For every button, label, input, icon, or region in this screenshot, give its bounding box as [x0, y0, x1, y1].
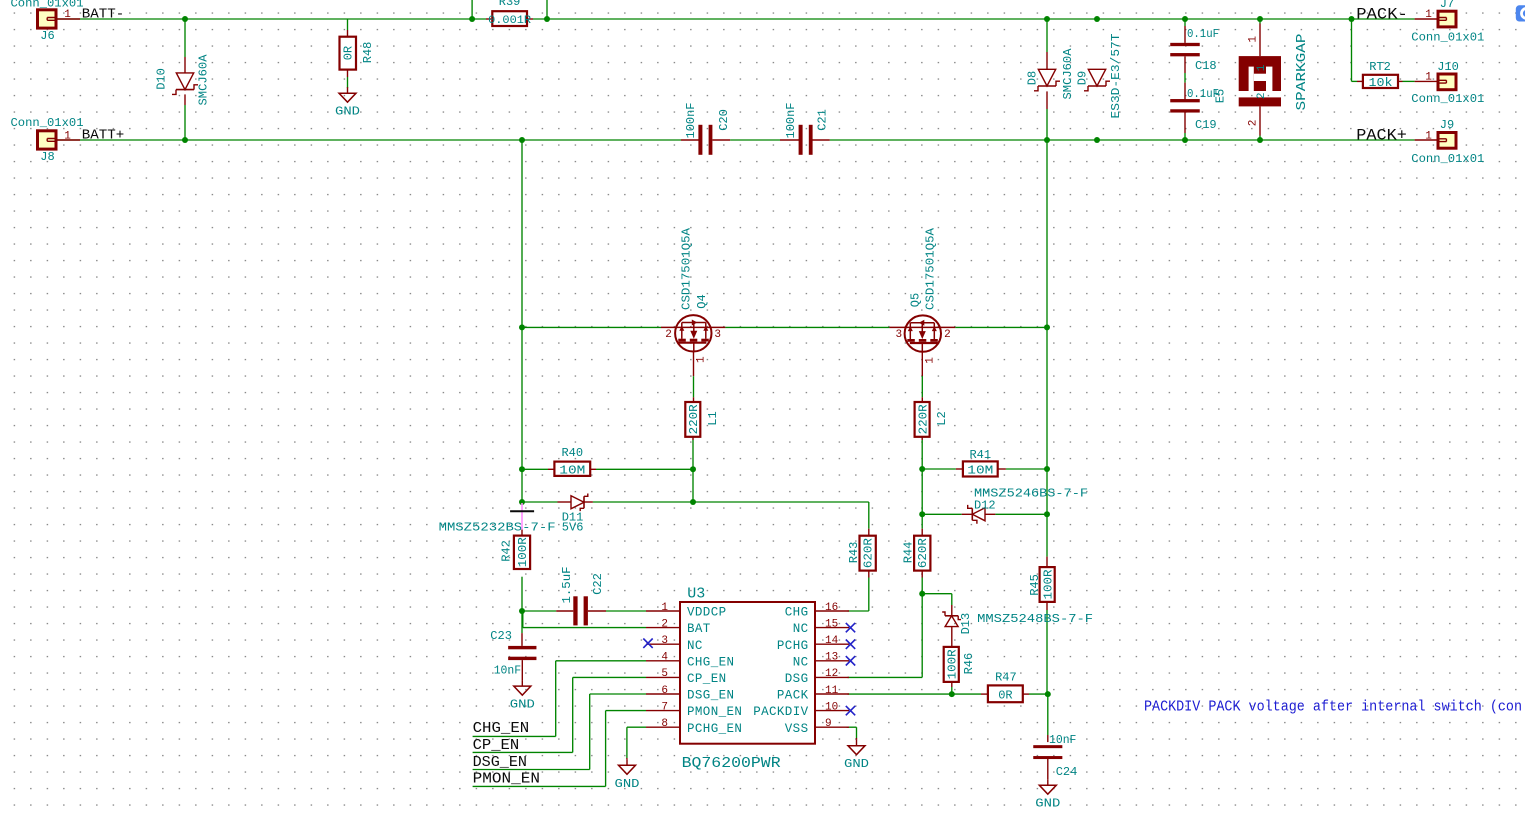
resistor R39 0.001R	[488, 0, 531, 27]
wire sparkgap branch	[1259, 19, 1261, 140]
junction (1047,469)	[1044, 466, 1050, 472]
svg-text:GND: GND	[335, 105, 360, 119]
wire D12 row	[922, 513, 1047, 515]
svg-text:NC: NC	[793, 622, 809, 636]
capacitor C19 0.1uF	[1170, 87, 1219, 132]
diode D9 ES3D-E3/57T	[1076, 34, 1124, 119]
svg-text:D9: D9	[1076, 71, 1090, 85]
svg-text:BAT: BAT	[687, 622, 711, 636]
svg-text:L2: L2	[935, 411, 949, 425]
svg-text:R40: R40	[561, 446, 583, 460]
resistor R41 10M	[963, 448, 998, 478]
wire R41 row	[922, 468, 1047, 470]
browser overlay button	[1516, 5, 1525, 21]
svg-text:CSD17501Q5A: CSD17501Q5A	[679, 227, 693, 310]
junction (522,327.4)	[519, 324, 525, 330]
svg-text:SPARKGAP: SPARKGAP	[1294, 33, 1310, 110]
wire pin16 CHG	[848, 610, 869, 612]
junction (1047,140)	[1044, 137, 1050, 143]
transistor Q5 CSD17501Q5A	[895, 227, 950, 364]
junction (1185,140)	[1182, 137, 1188, 143]
svg-text:R45: R45	[1028, 574, 1042, 596]
resistor R44 620R	[902, 536, 931, 571]
svg-text:1: 1	[1425, 131, 1432, 143]
wire Q5 gate chain	[921, 351, 923, 677]
diode D10 SMCJ60A	[155, 54, 211, 106]
svg-text:NC: NC	[793, 655, 809, 669]
resistor RT2 10k	[1363, 60, 1398, 90]
svg-text:PACK+: PACK+	[1356, 127, 1407, 145]
svg-text:CSD17501Q5A: CSD17501Q5A	[924, 227, 938, 310]
capacitor C23 10nF	[490, 629, 536, 677]
svg-text:0.1uF: 0.1uF	[1187, 27, 1219, 41]
wire BATT- / PACK- top rail	[56, 0, 1415, 19]
svg-text:J9: J9	[1440, 118, 1454, 132]
svg-text:2: 2	[661, 618, 668, 630]
wire C23 branch	[521, 611, 523, 680]
svg-text:Conn_01x01: Conn_01x01	[11, 116, 84, 130]
svg-text:Conn_01x01: Conn_01x01	[11, 0, 84, 11]
svg-text:10nF: 10nF	[494, 663, 521, 677]
wire pin7 PMON_EN stair	[473, 711, 646, 787]
resistor R42 100R	[499, 530, 530, 569]
svg-text:7: 7	[661, 701, 668, 713]
svg-text:2: 2	[1256, 92, 1268, 99]
svg-text:3: 3	[895, 329, 902, 341]
junction (951.8,694.1)	[949, 691, 955, 697]
svg-text:1: 1	[661, 602, 668, 614]
svg-text:PACK-: PACK-	[1356, 5, 1408, 23]
svg-text:1: 1	[925, 357, 937, 364]
junction (1047.8,694.1)	[1045, 691, 1051, 697]
svg-text:DSG: DSG	[785, 672, 809, 686]
svg-text:0R: 0R	[998, 688, 1012, 702]
svg-text:J7: J7	[1440, 0, 1454, 11]
ground below pin8 PCHG_EN	[615, 759, 640, 791]
diode D12 MMSZ5246BS-7-F	[968, 487, 1088, 524]
svg-text:BATT+: BATT+	[82, 127, 125, 143]
svg-text:CHG_EN: CHG_EN	[473, 720, 530, 737]
svg-text:1.5uF: 1.5uF	[560, 567, 574, 604]
junction (1047,327.4)	[1044, 324, 1050, 330]
svg-text:R39: R39	[499, 0, 521, 9]
wire left rail x=522	[521, 140, 523, 611]
svg-text:D10: D10	[155, 68, 169, 90]
svg-text:6: 6	[661, 685, 668, 697]
svg-text:Conn_01x01: Conn_01x01	[1411, 92, 1484, 106]
wire BATT+ / PACK+ bottom rail	[56, 139, 1415, 141]
svg-text:VDDCP: VDDCP	[687, 606, 727, 620]
junction (693,502)	[690, 499, 696, 505]
wire MOSFET rail y=327.4	[522, 326, 1047, 328]
svg-text:Conn_01x01: Conn_01x01	[1411, 152, 1484, 166]
svg-text:MMSZ5232BS-7-F: MMSZ5232BS-7-F	[439, 521, 556, 535]
wire PACK- to RT2 and J10	[1352, 19, 1415, 81]
ground below pin9 VSS	[844, 740, 869, 772]
svg-text:PACKDIV: PACKDIV	[753, 705, 808, 719]
wire pin5 CP_EN stair	[473, 677, 646, 752]
svg-text:13: 13	[825, 652, 838, 664]
wire pin6 DSG_EN stair	[473, 694, 646, 770]
svg-text:5V6: 5V6	[562, 521, 584, 535]
svg-text:VSS: VSS	[785, 722, 809, 736]
ground below C23	[510, 680, 535, 712]
svg-text:C19: C19	[1195, 118, 1217, 132]
no-connect X marks	[643, 623, 855, 715]
svg-text:PCHG_EN: PCHG_EN	[687, 722, 742, 736]
svg-text:R48: R48	[361, 42, 375, 64]
svg-text:1: 1	[695, 356, 707, 363]
junction (693,469.3)	[690, 466, 696, 472]
junction (522,469.3)	[519, 466, 525, 472]
svg-text:10M: 10M	[559, 464, 585, 478]
svg-text:4: 4	[661, 652, 668, 664]
svg-text:ES3D-E3/57T: ES3D-E3/57T	[1109, 34, 1123, 119]
svg-text:J10: J10	[1437, 60, 1459, 74]
svg-text:1: 1	[1425, 72, 1432, 84]
svg-text:100nF: 100nF	[784, 103, 798, 139]
svg-text:100R: 100R	[516, 537, 530, 567]
svg-text:J8: J8	[40, 150, 54, 164]
svg-text:GND: GND	[510, 698, 535, 712]
svg-text:3: 3	[661, 635, 668, 647]
svg-text:15: 15	[825, 618, 838, 630]
svg-text:SMCJ60A: SMCJ60A	[197, 54, 211, 106]
svg-text:MMSZ5246BS-7-F: MMSZ5246BS-7-F	[974, 487, 1088, 501]
svg-text:100nF: 100nF	[684, 103, 698, 139]
wire pin4 CHG_EN stair	[473, 661, 646, 737]
svg-text:12: 12	[825, 668, 838, 680]
svg-text:14: 14	[825, 635, 839, 647]
pink highlight marker	[510, 503, 534, 530]
svg-text:C18: C18	[1195, 59, 1217, 73]
wire Q4 gate chain	[692, 351, 695, 502]
svg-text:CP_EN: CP_EN	[687, 672, 727, 686]
svg-text:220R: 220R	[687, 404, 701, 434]
wire D10 branch	[184, 19, 186, 140]
junction (922.2,469)	[919, 466, 925, 472]
junction (922.2,593.7)	[919, 591, 925, 597]
junction (922.2,514.3)	[919, 511, 925, 517]
junction (1260,140)	[1257, 137, 1263, 143]
capacitor C18 0.1uF	[1170, 27, 1219, 73]
junction (522,611)	[519, 608, 525, 614]
svg-text:220R: 220R	[917, 404, 931, 434]
svg-text:R43: R43	[847, 542, 861, 564]
diode D11 MMSZ5232BS-7-F 5V6	[439, 494, 588, 535]
svg-text:C21: C21	[816, 109, 830, 131]
svg-text:0R: 0R	[342, 46, 356, 60]
svg-text:GND: GND	[615, 777, 640, 791]
svg-text:Q4: Q4	[695, 294, 709, 308]
wire pin1 VDDCP with C22	[522, 610, 646, 612]
svg-text:2: 2	[1248, 120, 1260, 127]
transistor Q4 CSD17501Q5A	[665, 227, 721, 363]
junction (1047,19)	[1044, 16, 1050, 22]
wire C18 C19 branch	[1184, 19, 1186, 140]
svg-text:11: 11	[825, 685, 839, 697]
resistor L1 220R	[685, 402, 720, 437]
svg-text:10M: 10M	[967, 464, 993, 478]
svg-text:DSG_EN: DSG_EN	[473, 754, 527, 771]
capacitor C20 100nF	[684, 103, 731, 155]
wire pin11 PACK / R47 row	[848, 693, 1048, 695]
junction (185,19)	[182, 16, 188, 22]
svg-text:8: 8	[661, 718, 668, 730]
junction (522,502)	[519, 499, 525, 505]
svg-text:E5: E5	[1214, 89, 1228, 103]
svg-text:2: 2	[944, 329, 951, 341]
svg-text:PACKDIV PACK voltage after in: PACKDIV PACK voltage after internal swit…	[1144, 699, 1522, 716]
svg-text:MMSZ5248BS-7-F: MMSZ5248BS-7-F	[977, 612, 1093, 626]
wire R40 row	[522, 468, 693, 470]
svg-text:PMON_EN: PMON_EN	[687, 705, 742, 719]
svg-text:CHG: CHG	[785, 606, 809, 620]
svg-text:1: 1	[1248, 36, 1260, 43]
svg-text:3: 3	[714, 329, 721, 341]
junction (1260,19)	[1257, 16, 1263, 22]
wire pin12 DSG	[848, 676, 923, 678]
svg-text:1: 1	[1256, 64, 1268, 71]
junction (522,140)	[519, 137, 525, 143]
op-amp U3 BQ76200PWR	[646, 586, 849, 772]
svg-text:1: 1	[1425, 9, 1432, 21]
svg-text:1: 1	[64, 130, 71, 142]
resistor L2 220R	[915, 402, 950, 437]
svg-text:L1: L1	[706, 411, 720, 425]
svg-text:PACK: PACK	[777, 689, 809, 703]
capacitor C21 100nF	[784, 103, 830, 155]
wire R48 to GND	[347, 19, 349, 88]
svg-text:R47: R47	[995, 670, 1017, 684]
svg-text:620R: 620R	[862, 538, 876, 568]
svg-text:J6: J6	[40, 29, 54, 43]
connector J10	[1411, 60, 1484, 106]
svg-text:BQ76200PWR: BQ76200PWR	[682, 755, 781, 772]
connector J8	[11, 116, 84, 164]
ground below C24	[1035, 758, 1060, 811]
wire D13 R46 chain	[922, 594, 952, 694]
capacitor C22 1.5uF	[560, 567, 605, 626]
svg-text:9: 9	[825, 718, 832, 730]
diode D13 MMSZ5248BS-7-F	[942, 612, 1093, 634]
svg-text:D13: D13	[959, 613, 973, 635]
svg-text:U3: U3	[687, 586, 705, 603]
svg-text:16: 16	[825, 602, 838, 614]
svg-text:1: 1	[64, 9, 71, 21]
junction (1185,19)	[1182, 16, 1188, 22]
resistor R40 10M	[554, 446, 590, 477]
svg-text:R46: R46	[962, 653, 976, 675]
wire right rail x=1047	[1046, 19, 1049, 742]
wire pin8 PCHG_EN to GND	[627, 727, 646, 759]
svg-text:5: 5	[661, 668, 668, 680]
junction (185,140)	[182, 137, 188, 143]
svg-text:10k: 10k	[1369, 76, 1393, 90]
resistor R43 620R	[847, 536, 876, 571]
svg-text:C23: C23	[490, 629, 512, 643]
wire pin2 BAT	[523, 611, 646, 628]
svg-text:R42: R42	[499, 540, 513, 562]
junction (1351.5,19)	[1349, 16, 1355, 22]
junction (1097,19)	[1094, 16, 1100, 22]
svg-text:0.001R: 0.001R	[488, 15, 531, 27]
svg-text:10nF: 10nF	[1049, 733, 1076, 747]
junction (1047,514.3)	[1044, 511, 1050, 517]
svg-text:SMCJ60A: SMCJ60A	[1061, 48, 1075, 100]
connector J7	[1411, 0, 1484, 45]
junction (472.1,19)	[469, 16, 475, 22]
resistor R46 100R	[944, 647, 976, 682]
wire pin9 VSS to GND	[847, 727, 857, 740]
svg-text:C20: C20	[717, 109, 731, 131]
svg-text:100R: 100R	[1042, 570, 1056, 600]
svg-text:RT2: RT2	[1369, 60, 1391, 74]
resistor R47 0R	[988, 670, 1023, 702]
ground below R48	[335, 87, 360, 119]
sparkgap E5	[1214, 33, 1311, 126]
svg-text:CP_EN: CP_EN	[473, 737, 520, 754]
svg-text:PMON_EN: PMON_EN	[473, 771, 540, 788]
svg-text:BATT-: BATT-	[82, 6, 125, 22]
svg-text:Q5: Q5	[909, 293, 923, 307]
svg-text:PCHG: PCHG	[777, 639, 809, 653]
wire D11 row	[522, 502, 869, 611]
junction (547,19)	[544, 16, 550, 22]
svg-text:C22: C22	[591, 573, 605, 595]
junction (1097,140)	[1094, 137, 1100, 143]
svg-text:DSG_EN: DSG_EN	[687, 689, 734, 703]
diode D8 SMCJ60A	[1026, 48, 1076, 100]
svg-text:100R: 100R	[946, 649, 960, 679]
resistor R45 100R	[1028, 567, 1056, 602]
svg-text:620R: 620R	[916, 538, 930, 568]
capacitor C24 10nF	[1033, 733, 1077, 779]
svg-text:10: 10	[825, 701, 838, 713]
connector J6	[11, 0, 84, 43]
svg-text:R41: R41	[969, 448, 991, 462]
svg-text:NC: NC	[687, 639, 703, 653]
connector J9	[1411, 118, 1484, 166]
svg-text:GND: GND	[844, 757, 869, 771]
svg-text:R44: R44	[902, 542, 916, 564]
svg-text:Conn_01x01: Conn_01x01	[1411, 31, 1484, 45]
svg-text:CHG_EN: CHG_EN	[687, 655, 734, 669]
svg-text:C24: C24	[1056, 765, 1078, 779]
svg-text:D8: D8	[1026, 71, 1040, 85]
resistor R48 0R	[340, 37, 376, 70]
svg-text:GND: GND	[1035, 797, 1060, 811]
svg-text:2: 2	[665, 329, 672, 341]
